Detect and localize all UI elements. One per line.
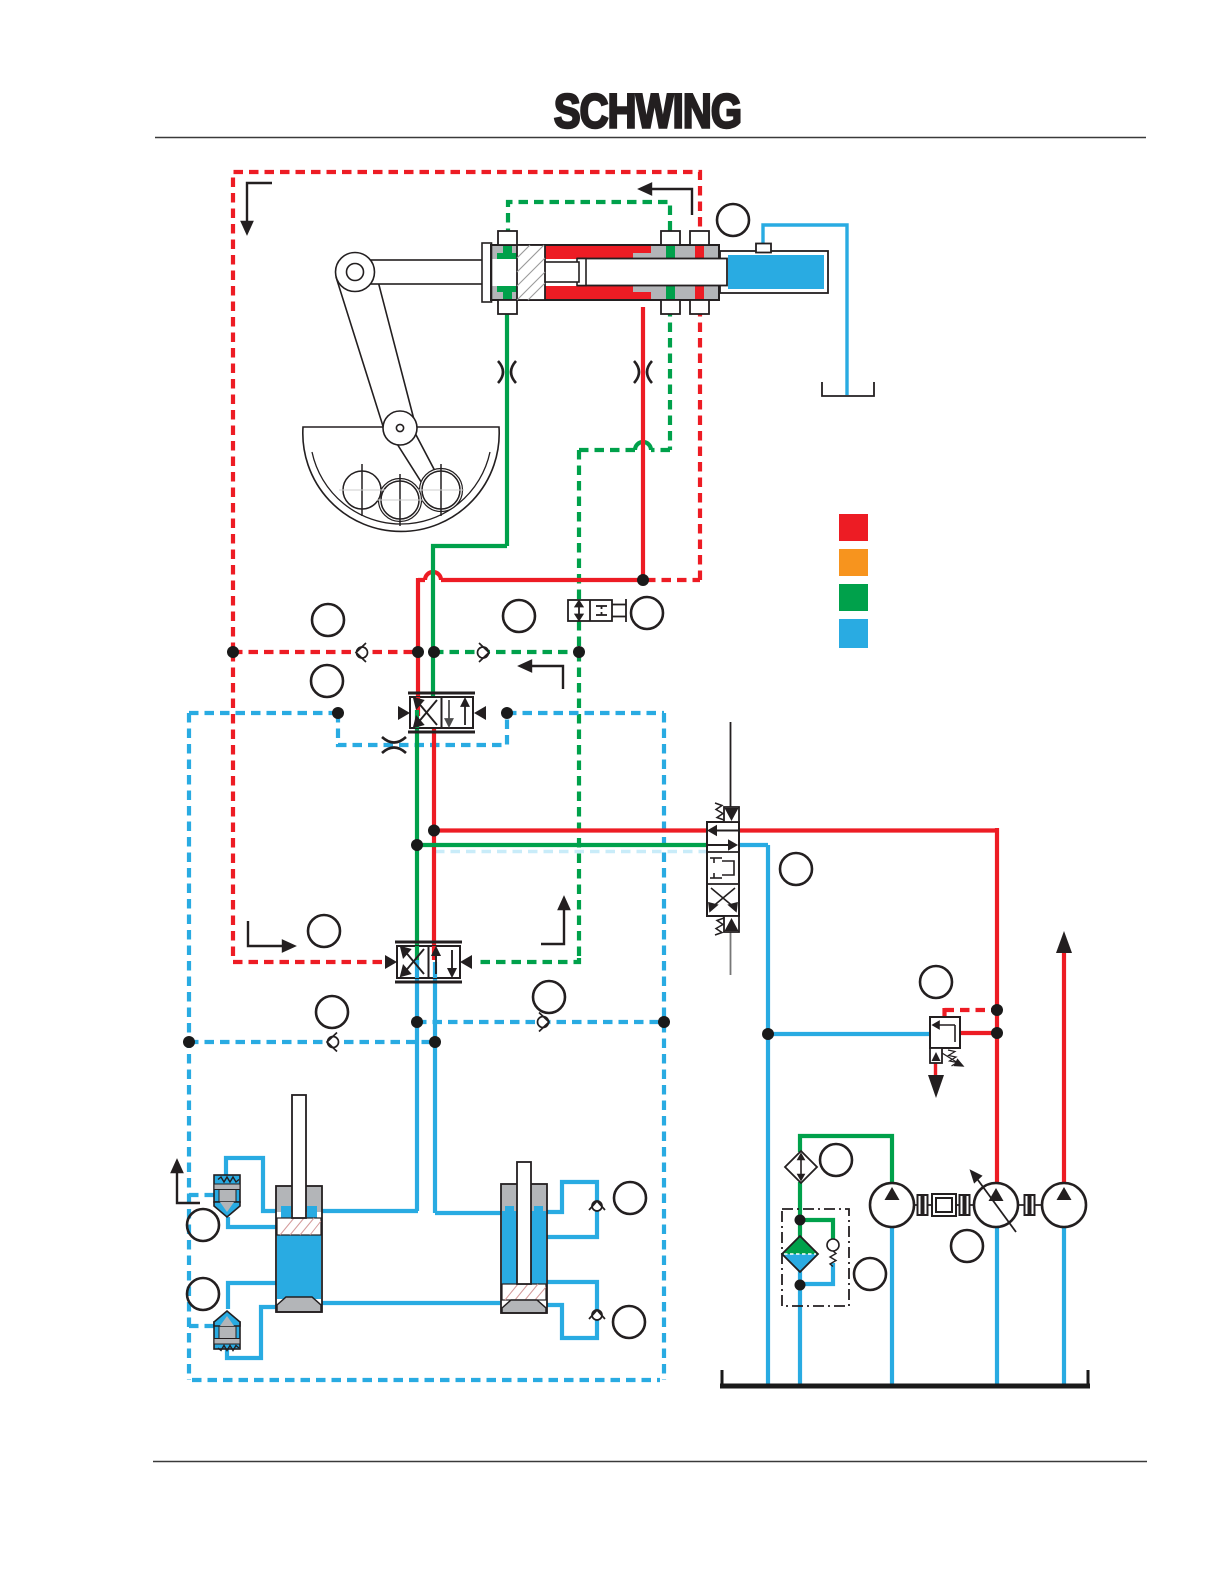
svg-text:SCHWING: SCHWING bbox=[554, 85, 741, 138]
